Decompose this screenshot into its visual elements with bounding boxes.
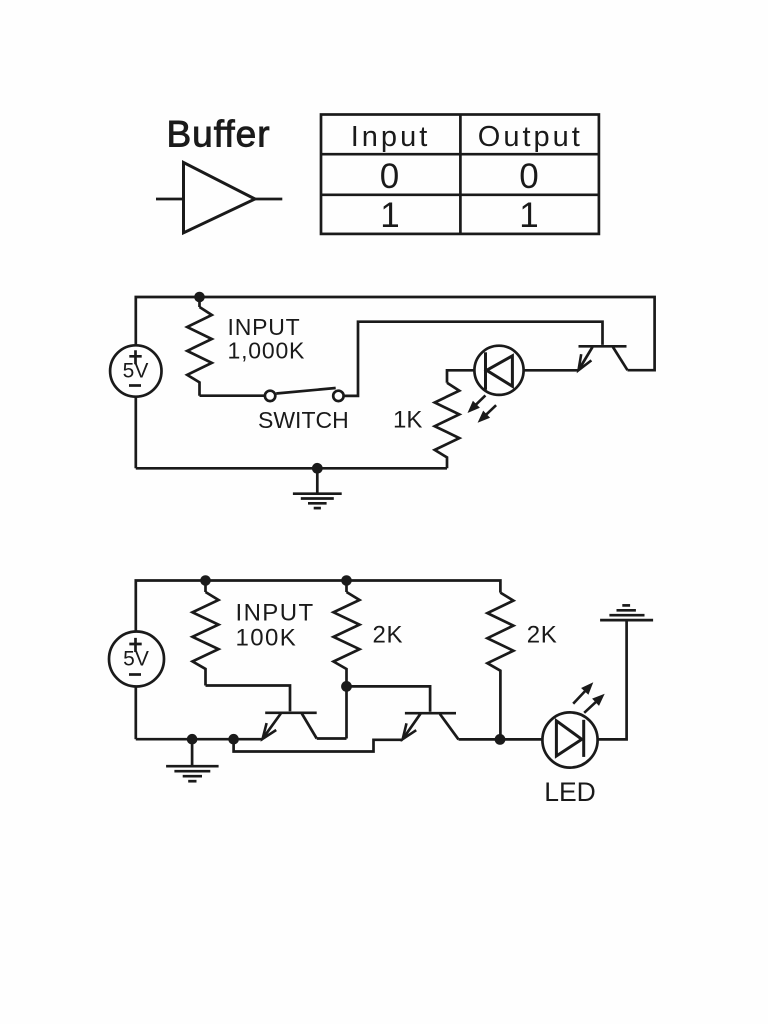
wire resistor to switch	[200, 394, 265, 397]
bottom rail wire	[136, 467, 447, 470]
svg-text:2K: 2K	[527, 622, 558, 649]
source V2 5V circle	[109, 632, 164, 687]
wire switch to base	[344, 322, 603, 396]
switch left contact	[265, 391, 275, 401]
step wire to Q3 emitter	[234, 739, 403, 751]
source V1 5V circle	[110, 345, 161, 396]
D1 emission arrow 2	[485, 405, 496, 415]
bottom rail wire V2	[136, 738, 263, 741]
wire Q2 collector to R3 node	[317, 737, 347, 740]
buffer output wire	[255, 198, 282, 201]
wire R2 to Q2 base	[206, 686, 291, 712]
resistor 1K	[435, 383, 460, 469]
D2 cathode bar	[582, 720, 585, 757]
transistor Q3 base bar	[405, 712, 456, 715]
LED D2 circle	[542, 712, 597, 767]
svg-text:Buffer: Buffer	[167, 114, 271, 155]
svg-text:1: 1	[380, 196, 399, 235]
D2 emission arrow 2	[584, 701, 597, 713]
LED D1 circle	[474, 346, 523, 395]
svg-text:0: 0	[380, 157, 399, 196]
svg-text:INPUT: INPUT	[236, 599, 315, 626]
Q1 collector	[613, 347, 628, 370]
node dot R4 bottom	[495, 734, 506, 745]
Q3 collector	[440, 714, 459, 739]
V2 plus sign	[129, 638, 141, 652]
svg-text:LED: LED	[544, 777, 596, 807]
V2 minus sign	[129, 673, 141, 676]
Q1 emitter	[580, 347, 593, 369]
svg-text:0: 0	[519, 157, 538, 196]
transistor Q1 base bar	[579, 345, 627, 348]
D1 triangle	[487, 356, 513, 387]
D1 cathode bar	[484, 352, 487, 390]
ground stub middle	[316, 468, 319, 493]
resistor 2K second	[487, 593, 513, 740]
ground middle	[293, 494, 342, 508]
wire R3 node down to Q2 collector	[345, 686, 348, 738]
resistor INPUT 1,000K	[198, 297, 201, 307]
node dot bottom rail	[312, 463, 323, 474]
ground bottom left	[166, 766, 219, 781]
truth table grid	[321, 115, 599, 234]
ground stub bottom left	[191, 739, 194, 766]
V1 plus sign	[129, 350, 141, 364]
svg-text:Output: Output	[478, 121, 583, 153]
buffer input wire	[156, 198, 184, 201]
wire LED right to ground	[598, 620, 627, 739]
V1 minus sign	[129, 384, 141, 387]
svg-text:5V: 5V	[123, 359, 149, 382]
switch right contact	[333, 391, 343, 401]
Q3 emitter	[404, 714, 420, 737]
node dot R3 top	[341, 575, 352, 586]
svg-text:1,000K: 1,000K	[228, 338, 306, 364]
svg-text:2K: 2K	[373, 621, 404, 648]
svg-text:INPUT: INPUT	[228, 314, 301, 340]
node dot R2 top	[200, 575, 211, 586]
top rail wire	[136, 581, 501, 633]
wire Q3 collector to LED	[459, 738, 543, 741]
top rail wire	[136, 297, 655, 370]
Q2 collector	[302, 714, 317, 739]
svg-text:5V: 5V	[123, 648, 149, 671]
wire LED left to 1K	[447, 370, 474, 382]
V1 bottom wire	[134, 397, 137, 469]
node dot step	[228, 734, 239, 745]
transistor Q2 base bar	[265, 711, 317, 714]
wire LED right to emitter	[524, 369, 579, 372]
resistor 2K first	[345, 581, 348, 593]
switch lever	[276, 388, 336, 394]
node dot top rail	[194, 292, 205, 303]
svg-text:1K: 1K	[393, 407, 422, 434]
resistor INPUT 100K	[204, 581, 207, 593]
D2 triangle	[556, 721, 581, 756]
ground top right inverted	[600, 605, 653, 620]
svg-text:1: 1	[519, 196, 538, 235]
wire R3 node to Q3 base	[347, 686, 431, 711]
svg-text:Input: Input	[351, 121, 431, 153]
Q2 emitter	[264, 714, 281, 738]
svg-text:100K: 100K	[236, 624, 298, 651]
buffer gate triangle	[184, 163, 256, 233]
D1 emission arrow 1	[475, 395, 485, 405]
svg-text:SWITCH: SWITCH	[258, 407, 349, 433]
node dot R3 bottom	[341, 681, 352, 692]
V2 bottom wire	[134, 687, 137, 740]
node dot ground	[187, 734, 198, 745]
D2 emission arrow 1	[573, 690, 586, 704]
